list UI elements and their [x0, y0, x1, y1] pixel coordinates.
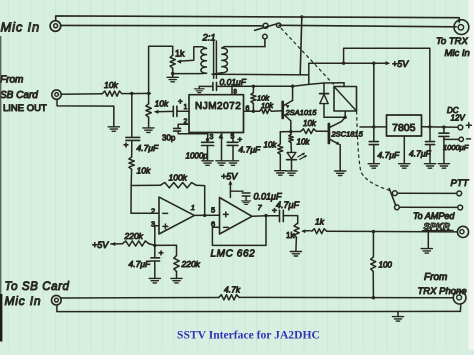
svg-text:4.7μF: 4.7μF [276, 200, 299, 210]
svg-text:+: + [124, 140, 129, 150]
svg-text:220k: 220k [124, 231, 144, 241]
svg-text:PTT: PTT [451, 178, 470, 189]
svg-text:TRX Phone: TRX Phone [418, 286, 467, 297]
svg-text:1k: 1k [175, 49, 185, 59]
svg-text:4.7k: 4.7k [224, 285, 241, 295]
svg-text:LINE OUT: LINE OUT [3, 103, 47, 114]
svg-text:10k: 10k [264, 141, 278, 150]
svg-text:10k: 10k [137, 166, 151, 176]
svg-text:220k: 220k [181, 259, 201, 269]
svg-text:5: 5 [211, 206, 215, 215]
svg-text:Mic In: Mic In [445, 48, 470, 59]
svg-text:To TRX: To TRX [436, 36, 469, 47]
svg-text:+: + [238, 135, 243, 144]
svg-text:10k: 10k [257, 94, 270, 103]
svg-text:+5V: +5V [92, 240, 109, 250]
svg-text:12V: 12V [451, 114, 466, 123]
svg-text:+: + [178, 97, 183, 106]
svg-text:2SC1815: 2SC1815 [331, 130, 364, 139]
svg-text:2: 2 [151, 206, 155, 215]
svg-text:+: + [159, 248, 164, 258]
svg-text:30p: 30p [162, 134, 176, 143]
svg-text:10k: 10k [155, 99, 169, 109]
svg-text:From: From [424, 272, 447, 283]
svg-text:1: 1 [184, 104, 188, 111]
svg-text:4.7μF: 4.7μF [137, 143, 159, 153]
svg-text:10k: 10k [303, 119, 317, 128]
svg-text:To SB Card: To SB Card [5, 281, 70, 293]
svg-text:100k: 100k [169, 173, 188, 183]
svg-text:Mic In: Mic In [1, 20, 40, 35]
svg-text:10k: 10k [297, 138, 311, 147]
svg-text:100: 100 [379, 261, 393, 270]
svg-text:+: + [272, 205, 277, 215]
svg-text:10k: 10k [261, 101, 274, 110]
svg-text:1000μF: 1000μF [443, 143, 469, 152]
svg-text:SSTV Interface for JA2DHC: SSTV Interface for JA2DHC [177, 329, 320, 342]
svg-text:7805: 7805 [392, 122, 416, 134]
svg-text:SB Card: SB Card [0, 90, 38, 101]
svg-text:NJM2072: NJM2072 [195, 101, 241, 112]
svg-text:1000p: 1000p [186, 152, 209, 161]
svg-text:4.7μF: 4.7μF [409, 149, 431, 159]
svg-text:0.01μF: 0.01μF [220, 77, 247, 87]
svg-text:To AMPed: To AMPed [413, 211, 455, 221]
svg-text:1k: 1k [286, 231, 295, 240]
svg-text:4.7μF: 4.7μF [378, 150, 400, 160]
svg-text:2SA1015: 2SA1015 [285, 108, 318, 117]
svg-text:LMC 662: LMC 662 [211, 249, 256, 260]
svg-text:4.7μF: 4.7μF [239, 145, 261, 155]
svg-text:4.7μF: 4.7μF [129, 259, 151, 269]
svg-text:1: 1 [191, 203, 195, 212]
svg-text:+5V: +5V [392, 59, 409, 69]
svg-text:Mic In: Mic In [5, 294, 42, 308]
svg-text:From: From [0, 75, 23, 86]
svg-text:3: 3 [210, 134, 214, 141]
svg-text:1k: 1k [315, 217, 325, 227]
svg-text:10k: 10k [104, 80, 118, 90]
svg-text:+5V: +5V [221, 172, 238, 182]
